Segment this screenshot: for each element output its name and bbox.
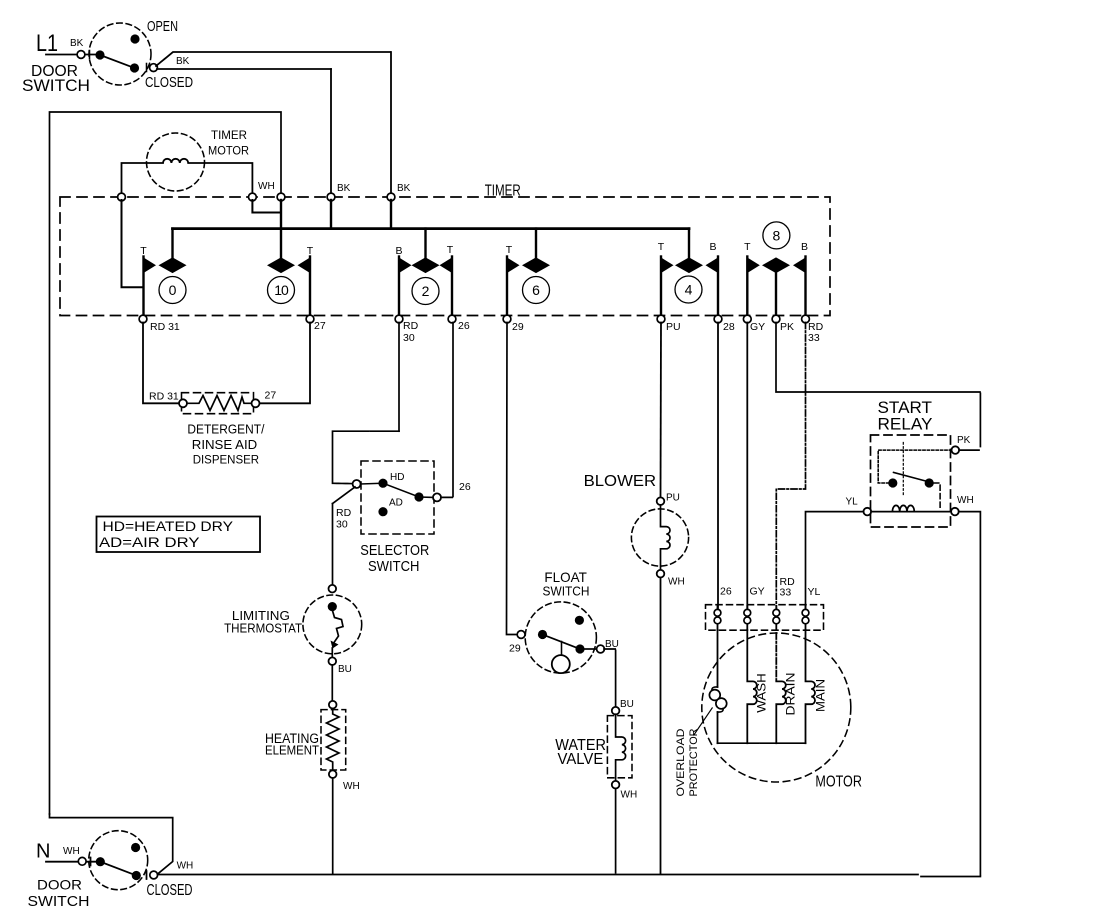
svg-text:B: B bbox=[395, 245, 402, 257]
svg-text:6: 6 bbox=[532, 282, 540, 298]
svg-text:BLOWER: BLOWER bbox=[584, 473, 657, 490]
svg-text:BK: BK bbox=[70, 38, 84, 49]
thermostat bottom terminal bbox=[329, 657, 337, 665]
terminal RD 31 bbox=[139, 315, 147, 323]
svg-text:BU: BU bbox=[338, 664, 352, 675]
relay contact left bbox=[888, 478, 897, 487]
wire GY down bbox=[746, 323, 748, 609]
svg-text:26: 26 bbox=[458, 320, 470, 332]
open contact bbox=[131, 843, 140, 852]
contact AD bbox=[378, 507, 387, 516]
blade bbox=[100, 862, 136, 876]
tick mark bbox=[90, 858, 92, 866]
selector dashed box bbox=[361, 461, 434, 534]
svg-text:AD: AD bbox=[389, 498, 403, 509]
svg-text:DRAIN: DRAIN bbox=[784, 673, 798, 716]
tick mark bbox=[146, 871, 148, 879]
svg-text:BU: BU bbox=[620, 699, 634, 710]
wire BK upper run to timer bbox=[156, 52, 391, 66]
motor dashed body bbox=[702, 633, 851, 782]
svg-text:26: 26 bbox=[459, 481, 471, 493]
svg-text:ELEMENT: ELEMENT bbox=[265, 744, 319, 758]
svg-text:10: 10 bbox=[274, 282, 289, 298]
svg-text:HD: HD bbox=[390, 472, 404, 483]
tick mark bbox=[146, 64, 148, 72]
svg-text:RD: RD bbox=[403, 320, 419, 332]
float ball bbox=[552, 655, 570, 673]
svg-text:B: B bbox=[801, 241, 808, 253]
thermostat bimetal element bbox=[332, 610, 343, 643]
relay terminal PK bbox=[952, 446, 960, 454]
wire WH to bottom bus bbox=[959, 512, 981, 877]
heating element R2 zigzag bbox=[327, 709, 340, 771]
DRAIN winding bbox=[775, 633, 777, 681]
wire jog WH to box edge bbox=[252, 200, 281, 213]
svg-text:WH: WH bbox=[668, 577, 685, 588]
svg-text:CLOSED: CLOSED bbox=[145, 74, 193, 91]
thermostat top terminal bbox=[329, 585, 337, 593]
svg-text:HD=HEATED DRY: HD=HEATED DRY bbox=[103, 519, 234, 534]
common contact bbox=[96, 857, 105, 866]
wire BK2 drop to bus bbox=[390, 200, 392, 229]
relay terminal YL bbox=[864, 508, 872, 516]
svg-text:26: 26 bbox=[720, 586, 732, 598]
svg-text:27: 27 bbox=[314, 320, 326, 332]
wire PK from timer bbox=[776, 323, 980, 447]
water valve bottom terminal bbox=[612, 781, 620, 789]
wire PU down bbox=[660, 323, 663, 498]
svg-text:BK: BK bbox=[397, 183, 411, 194]
selector common terminal bbox=[353, 480, 361, 488]
blade bbox=[543, 635, 581, 650]
svg-text:T: T bbox=[506, 244, 513, 256]
wire L1 to door switch bbox=[46, 54, 97, 56]
svg-text:PU: PU bbox=[666, 493, 680, 504]
wire short gap bbox=[331, 648, 333, 658]
svg-text:33: 33 bbox=[808, 332, 820, 344]
water valve top terminal bbox=[612, 707, 620, 715]
terminal BK 2 bbox=[387, 193, 395, 201]
wire right contact down bbox=[934, 483, 940, 508]
svg-text:MOTOR: MOTOR bbox=[208, 146, 249, 158]
terminal GY bbox=[743, 315, 751, 323]
wire neutral bottom bus bbox=[158, 874, 919, 876]
svg-text:DETERGENT/: DETERGENT/ bbox=[187, 423, 265, 437]
door switch common contact bbox=[95, 50, 104, 59]
door switch closed contact bbox=[130, 63, 139, 72]
float switch dashed body bbox=[525, 602, 596, 673]
svg-text:TIMER: TIMER bbox=[211, 130, 247, 142]
float switch left terminal bbox=[517, 631, 525, 639]
heating element top terminal bbox=[329, 701, 337, 709]
svg-text:SWITCH: SWITCH bbox=[543, 584, 590, 599]
float stem bbox=[561, 642, 563, 656]
svg-text:29: 29 bbox=[509, 643, 521, 655]
svg-text:WH: WH bbox=[258, 181, 275, 192]
cam switch 8 bbox=[763, 258, 789, 273]
svg-text:BK: BK bbox=[176, 56, 190, 67]
overload protector contacts bbox=[712, 687, 718, 691]
svg-text:OVERLOAD: OVERLOAD bbox=[675, 728, 687, 796]
common contact bbox=[538, 630, 547, 639]
connector pins col 3 bbox=[775, 606, 777, 630]
door switch open contact bbox=[130, 34, 139, 43]
svg-text:YL: YL bbox=[808, 586, 821, 598]
wire 28/26 down bbox=[717, 323, 719, 609]
terminal RD 30 bbox=[395, 315, 403, 323]
door switch S2 dashed body bbox=[89, 831, 148, 890]
heating element dashed box bbox=[321, 710, 346, 770]
thermostat fixed contact bbox=[328, 602, 337, 611]
terminal on door switch (L1 side) bbox=[77, 51, 85, 59]
cam switch 2 bbox=[424, 229, 426, 259]
svg-text:RD 31: RD 31 bbox=[150, 321, 180, 333]
terminal 26 bbox=[448, 315, 456, 323]
svg-text:27: 27 bbox=[265, 390, 277, 402]
MAIN winding bbox=[806, 630, 816, 743]
svg-text:BK: BK bbox=[337, 183, 351, 194]
svg-text:GY: GY bbox=[750, 586, 765, 598]
svg-text:FLOAT: FLOAT bbox=[544, 569, 587, 585]
svg-text:0: 0 bbox=[169, 282, 177, 298]
closed contact bbox=[132, 871, 141, 880]
svg-text:SWITCH: SWITCH bbox=[368, 558, 420, 575]
dispenser right terminal bbox=[252, 399, 260, 407]
svg-text:WH: WH bbox=[63, 846, 80, 857]
connector pins col 2 bbox=[746, 606, 748, 630]
svg-text:AD=AIR DRY: AD=AIR DRY bbox=[99, 535, 200, 550]
WASH winding bbox=[747, 630, 757, 743]
svg-text:PK: PK bbox=[957, 435, 971, 446]
svg-text:START: START bbox=[878, 399, 933, 417]
terminal N side bbox=[78, 857, 86, 865]
heater R1 zigzag bbox=[187, 396, 252, 411]
svg-text:OPEN: OPEN bbox=[147, 18, 178, 35]
svg-text:8: 8 bbox=[773, 227, 781, 243]
timer dashed box bbox=[60, 197, 830, 316]
wire common down to thermostat bbox=[333, 487, 356, 504]
terminal RD 33 bbox=[802, 315, 810, 323]
wire RD30 from timer bbox=[398, 323, 400, 432]
cam switch 4 bbox=[688, 229, 690, 259]
start relay dashed box bbox=[871, 435, 951, 527]
svg-text:T: T bbox=[744, 241, 751, 253]
connector dashed box bbox=[706, 605, 824, 631]
relay switch wiring bbox=[878, 450, 951, 483]
cam switch 0 bbox=[171, 229, 173, 259]
terminal timer motor right bbox=[249, 193, 257, 201]
svg-text:WH: WH bbox=[957, 495, 974, 506]
wire blower to neutral bus bbox=[660, 578, 662, 875]
terminal closed bbox=[150, 64, 158, 72]
svg-text:33: 33 bbox=[780, 587, 792, 599]
wire thermostat to heating element bbox=[331, 665, 333, 701]
relay armature link dotted bbox=[902, 443, 904, 496]
wire RD33 down with jog bbox=[776, 323, 805, 609]
svg-text:30: 30 bbox=[403, 332, 415, 344]
svg-text:4: 4 bbox=[685, 282, 693, 298]
dispenser dashed box bbox=[182, 393, 254, 414]
relay contact right bbox=[925, 478, 934, 487]
svg-text:29: 29 bbox=[512, 321, 524, 333]
connector pins col 4 bbox=[805, 606, 807, 630]
upper contact bbox=[575, 616, 584, 625]
svg-text:TIMER: TIMER bbox=[485, 183, 521, 200]
svg-text:MAIN: MAIN bbox=[814, 679, 828, 712]
svg-text:WH: WH bbox=[621, 790, 638, 801]
wire BK lower run to timer bbox=[157, 68, 331, 70]
wire BK1 drop to bus bbox=[330, 200, 332, 229]
terminal PK bbox=[772, 315, 780, 323]
svg-text:28: 28 bbox=[723, 321, 735, 333]
relay terminal WH bbox=[951, 508, 959, 516]
wire float switch to water valve bbox=[604, 649, 616, 707]
svg-text:T: T bbox=[307, 245, 314, 257]
terminal 29 bbox=[503, 315, 511, 323]
tick mark bbox=[89, 51, 91, 59]
svg-text:RINSE AID: RINSE AID bbox=[192, 438, 258, 452]
thermostat dashed body bbox=[303, 595, 362, 654]
water valve coil L1 bbox=[616, 714, 626, 781]
contact HD bbox=[378, 479, 387, 488]
svg-text:SWITCH: SWITCH bbox=[28, 893, 90, 910]
wire box edge down to cam 10 bbox=[280, 200, 282, 259]
terminal PU bbox=[657, 315, 665, 323]
wire main line bus bbox=[173, 227, 690, 230]
cam switch 6 bbox=[535, 229, 537, 259]
wire timer motor left lead inside timer bbox=[122, 200, 144, 287]
overload leader line bbox=[694, 708, 712, 735]
timer motor coil and leads bbox=[122, 159, 253, 194]
wire water valve to neutral bus bbox=[615, 789, 617, 875]
svg-text:T: T bbox=[658, 241, 665, 253]
selector blade common to HD bbox=[361, 482, 384, 485]
terminal BK 1 bbox=[327, 193, 335, 201]
wire bus right segment bbox=[921, 876, 980, 878]
wire heating element to neutral bus bbox=[332, 778, 334, 874]
lower contact bbox=[575, 644, 584, 653]
svg-text:DOOR: DOOR bbox=[37, 877, 82, 893]
door switch blade bbox=[100, 55, 135, 68]
svg-text:YL: YL bbox=[846, 497, 859, 508]
svg-text:PROTECTOR: PROTECTOR bbox=[688, 728, 700, 796]
svg-text:SELECTOR: SELECTOR bbox=[360, 542, 429, 559]
selector output terminal bbox=[433, 493, 441, 501]
wire RD31 down bbox=[143, 323, 179, 404]
svg-text:WH: WH bbox=[177, 861, 194, 872]
wire 27 down bbox=[260, 323, 310, 404]
terminal 28 bbox=[714, 315, 722, 323]
float switch right terminal bbox=[597, 645, 605, 653]
terminal WH (timer motor left) bbox=[118, 193, 126, 201]
wire to right terminal bbox=[584, 648, 597, 650]
legend box HD/AD bbox=[97, 517, 261, 553]
tick mark bbox=[146, 871, 148, 879]
relay coil L3 bbox=[871, 511, 951, 513]
door switch S1 dashed body bbox=[89, 23, 151, 85]
svg-text:RD 31: RD 31 bbox=[149, 391, 179, 403]
dispenser left terminal bbox=[179, 399, 187, 407]
svg-text:L1: L1 bbox=[36, 30, 58, 57]
svg-text:PU: PU bbox=[666, 321, 681, 333]
wire neutral loop box bbox=[50, 112, 282, 814]
svg-text:RD: RD bbox=[336, 507, 352, 519]
terminal neutral box bbox=[277, 193, 285, 201]
svg-text:30: 30 bbox=[336, 519, 348, 531]
blower dashed body bbox=[631, 509, 688, 566]
tick mark bbox=[90, 858, 92, 866]
svg-text:SWITCH: SWITCH bbox=[22, 76, 90, 95]
wire from neutral loop down to door switch bbox=[50, 814, 173, 875]
wire 29 down bbox=[507, 323, 518, 635]
water valve dashed box bbox=[607, 716, 632, 778]
svg-text:VALVE: VALVE bbox=[558, 751, 604, 768]
svg-text:THERMOSTAT: THERMOSTAT bbox=[224, 621, 302, 636]
svg-text:T: T bbox=[447, 244, 454, 256]
svg-text:WASH: WASH bbox=[755, 673, 769, 713]
svg-text:WH: WH bbox=[343, 781, 360, 792]
svg-text:CLOSED: CLOSED bbox=[147, 882, 193, 899]
svg-text:2: 2 bbox=[422, 283, 430, 299]
svg-text:RELAY: RELAY bbox=[878, 416, 933, 434]
relay blade bbox=[894, 472, 926, 481]
blower top terminal PU bbox=[657, 497, 665, 505]
heating element bottom terminal bbox=[329, 770, 337, 778]
svg-text:DISPENSER: DISPENSER bbox=[193, 455, 259, 467]
motor internal bus bbox=[718, 742, 806, 744]
connector pins col 1 bbox=[717, 606, 719, 630]
svg-text:N: N bbox=[36, 841, 50, 863]
svg-text:B: B bbox=[709, 241, 716, 253]
svg-text:T: T bbox=[140, 245, 147, 257]
overload protector lead bbox=[717, 630, 719, 687]
wire N to door switch bbox=[46, 861, 97, 863]
terminal closed bbox=[150, 871, 158, 879]
cam switch 10 bbox=[268, 258, 294, 273]
selector moving contact bbox=[414, 492, 423, 501]
wire 26 up to timer bbox=[441, 323, 453, 498]
blower bottom terminal WH bbox=[657, 570, 665, 578]
selector blade HD to output bbox=[383, 483, 433, 497]
terminal 27 bbox=[306, 315, 314, 323]
svg-text:MOTOR: MOTOR bbox=[815, 774, 862, 791]
wire YL to motor block bbox=[806, 512, 864, 608]
svg-text:PK: PK bbox=[780, 321, 794, 333]
timer motor dashed body bbox=[147, 133, 205, 191]
svg-text:GY: GY bbox=[750, 321, 765, 333]
blower coil L2 bbox=[661, 505, 671, 570]
